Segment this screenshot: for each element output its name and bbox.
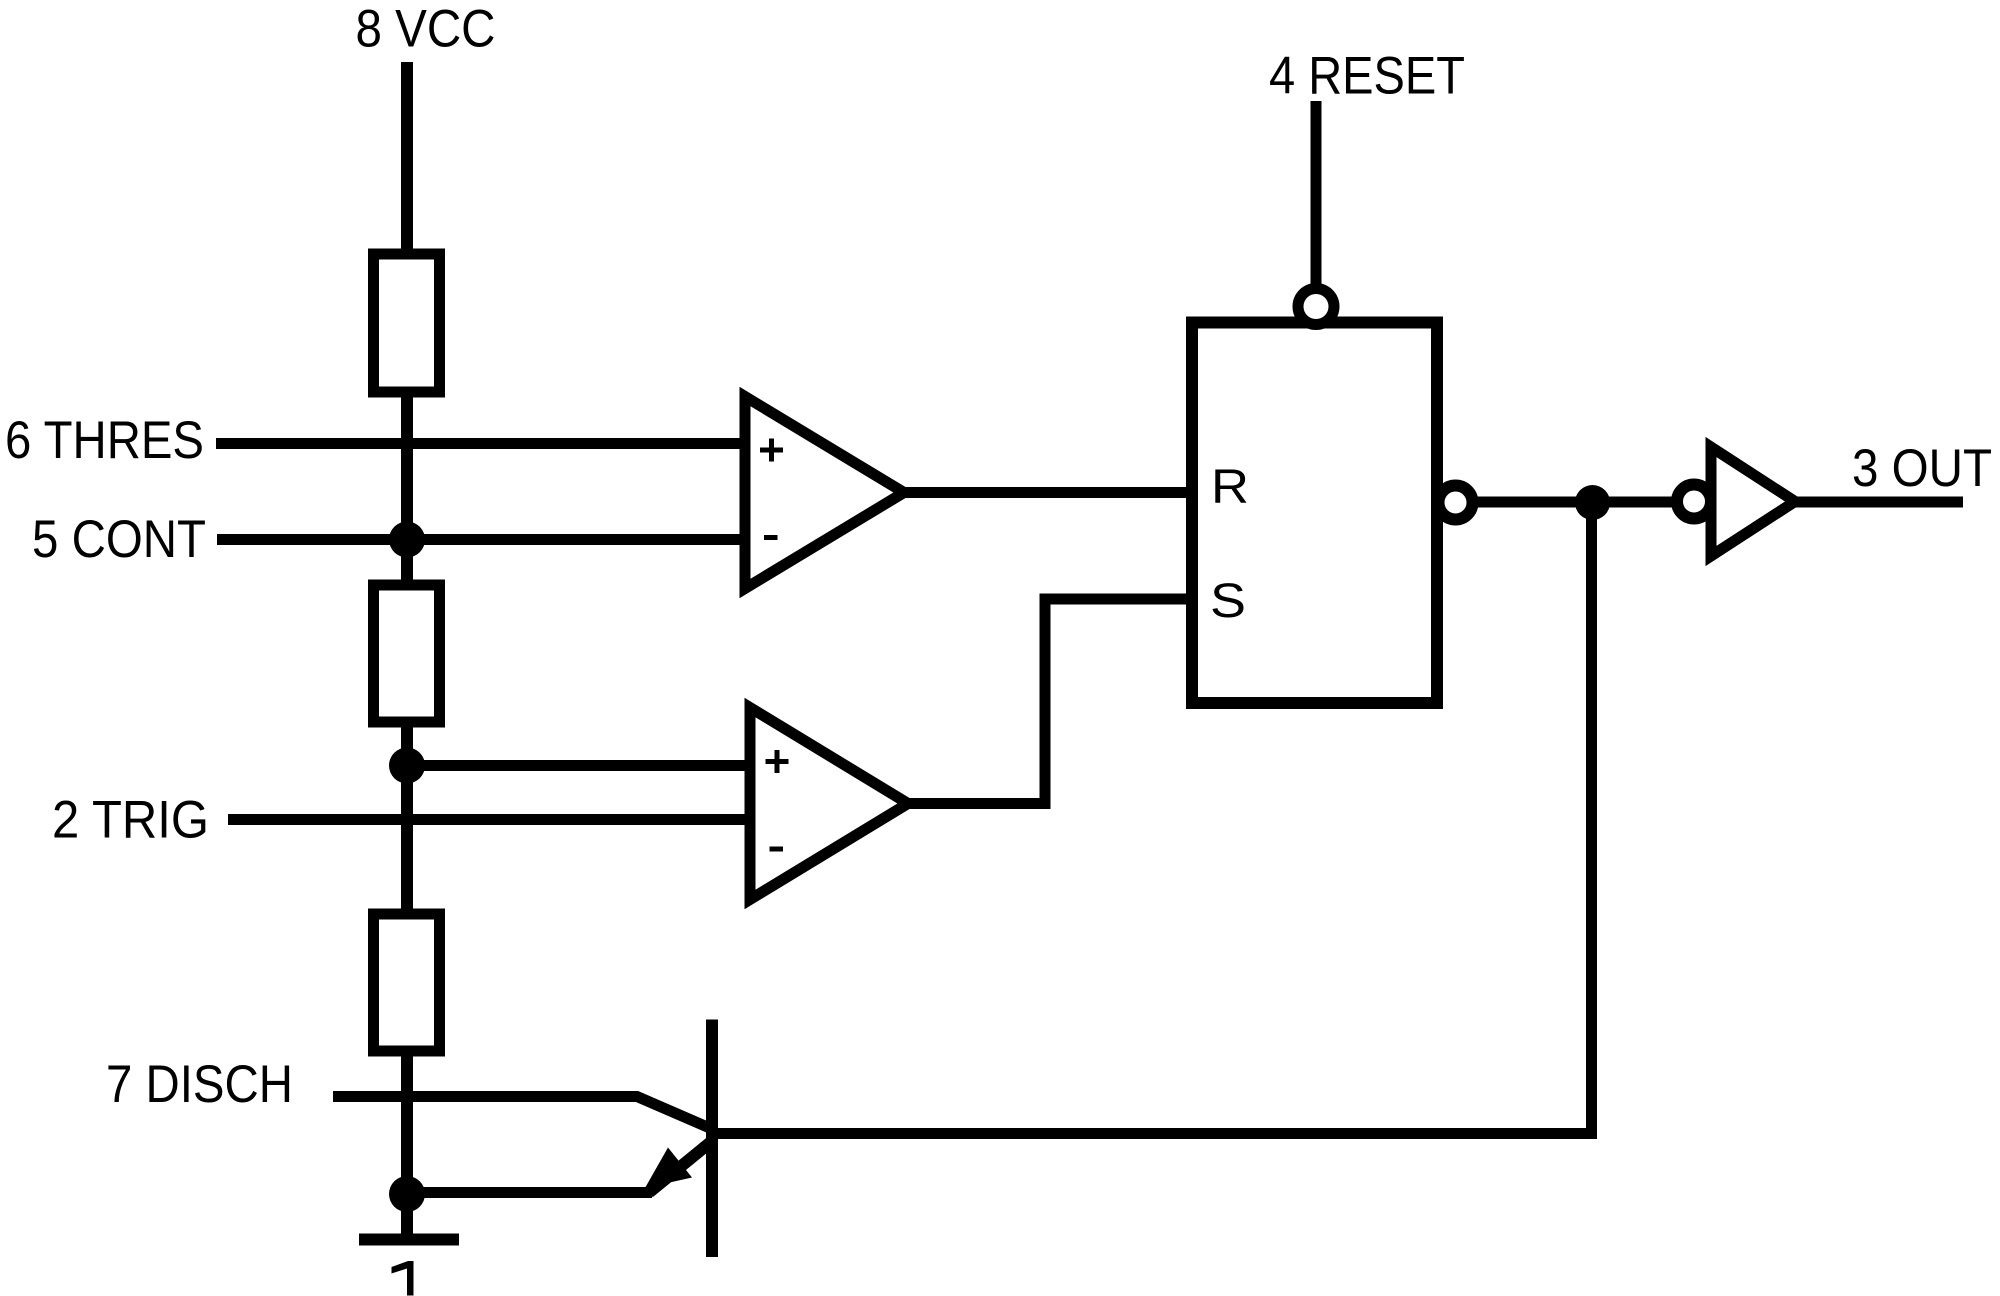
latch U3 (SR flip-flop box)	[1192, 323, 1437, 704]
resistor R1	[374, 254, 440, 392]
svg-text:4 RESET: 4 RESET	[1269, 47, 1465, 106]
svg-text:3 OUT: 3 OUT	[1852, 439, 1992, 498]
wire VCC rail (pin 8 to ground)	[401, 62, 413, 1239]
node D (latch output junction)	[1575, 485, 1610, 520]
svg-text:R: R	[1211, 461, 1249, 514]
wire transistor emitter to ground node	[407, 1187, 652, 1198]
resistor R2	[374, 585, 440, 722]
wire latch output to inverter input	[1459, 497, 1692, 508]
wire output node down to transistor base	[712, 502, 1592, 1134]
wire TRIG to comparator U2 - input	[228, 814, 750, 825]
transistor Q1 base bar	[706, 1020, 718, 1258]
inverter input bubble	[1677, 485, 1711, 519]
svg-text:S: S	[1210, 575, 1246, 628]
wire THRES to comparator U1 + input	[216, 438, 745, 449]
op-amp U2 trigger comparator	[750, 708, 908, 900]
op-amp U1 threshold comparator	[745, 397, 904, 589]
latch output inversion bubble	[1439, 486, 1473, 520]
wire divider node to comparator U2 + input	[407, 760, 750, 771]
resistor R3	[374, 914, 440, 1051]
wire RESET to latch top bubble	[1311, 101, 1322, 295]
wire inverter output to OUT pin 3	[1795, 497, 1963, 508]
wire comparator U2 output to latch S input	[908, 599, 1192, 804]
svg-text:8 VCC: 8 VCC	[356, 0, 496, 59]
ground	[359, 1234, 459, 1246]
node C (emitter / ground junction)	[389, 1176, 425, 1212]
svg-text:7 DISCH: 7 DISCH	[106, 1055, 293, 1114]
inverter U4 output buffer	[1711, 447, 1795, 556]
pin label 1 (ground)	[392, 1261, 414, 1296]
node A (CONT / divider junction)	[389, 522, 425, 558]
svg-text:5 CONT: 5 CONT	[32, 510, 206, 569]
transistor Q1 emitter with arrow	[649, 1141, 712, 1193]
reset inversion bubble	[1298, 289, 1334, 325]
wire CONT to comparator U1 - input	[217, 534, 745, 545]
wire DISCH to transistor collector	[333, 1097, 712, 1130]
wire comparator U1 output to latch R input	[904, 487, 1192, 498]
node B (R1-R2 junction to U2 + input)	[389, 748, 425, 784]
svg-text:6 THRES: 6 THRES	[5, 411, 204, 470]
svg-text:2 TRIG: 2 TRIG	[52, 791, 209, 850]
